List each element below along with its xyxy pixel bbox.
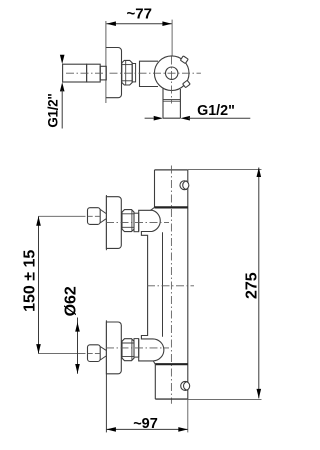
dimension Ø62 bottom arrow	[75, 364, 80, 374]
G1/2 outlet dimension left tail	[145, 117, 154, 119]
svg-text:150 ± 15: 150 ± 15	[22, 250, 39, 312]
dimension Ø62 line	[77, 318, 79, 374]
lower flange (rosette front)	[106, 322, 121, 374]
upper nut hex lines	[122, 214, 134, 228]
G1/2 pipe diameter up arrow	[60, 82, 65, 91]
stop notch (bottom right)	[183, 80, 191, 87]
wall flange (rosette, side view)	[106, 48, 122, 98]
upper nut	[122, 210, 134, 232]
upper washer	[134, 213, 139, 232]
pipe thread section	[87, 64, 101, 82]
washer (side view)	[132, 64, 135, 82]
body upper left edge	[154, 170, 156, 208]
outlet pipe below head	[163, 88, 180, 118]
lower nut hex lines	[122, 343, 134, 356]
dimension ~97 left arrow	[106, 427, 116, 432]
upper axis dash-dot	[106, 221, 169, 223]
nut hex line top	[122, 64, 132, 66]
lower nut boundary	[131, 339, 133, 361]
extension line left of ~77 / flange face line	[105, 21, 107, 103]
dimension ~97 line	[106, 428, 187, 430]
nut piece boundary	[125, 60, 127, 85]
G1/2 arrow leader line	[61, 90, 63, 129]
dimension ~97 right arrow	[178, 427, 188, 432]
upper flange face line	[105, 195, 107, 250]
dimension ~77 left arrow	[106, 21, 116, 26]
dimension 275 top arrow	[257, 168, 262, 178]
lower connection: wall stub	[88, 345, 101, 362]
lower flange face line (doubles as ~97 extension)	[105, 320, 107, 432]
vertical centerline of body	[170, 166, 172, 404]
lower hole crescent arc	[184, 382, 188, 391]
svg-text:Ø62: Ø62	[63, 286, 80, 316]
body top edge	[155, 169, 188, 171]
lower washer	[134, 339, 139, 358]
upper nut boundary	[131, 210, 133, 232]
wall pipe (side view)	[63, 64, 87, 82]
dimension 275 bottom arrow	[257, 389, 262, 399]
lower thick division line	[155, 363, 188, 365]
extension line ~97 right	[187, 399, 189, 432]
extension line top right (275)	[188, 169, 262, 171]
body right edge	[187, 170, 189, 399]
vertical centerline through head	[171, 57, 173, 104]
G1/2 pipe diameter down arrow	[60, 55, 65, 64]
dimension 150±15 bottom arrow	[36, 344, 41, 354]
svg-text:~77: ~77	[126, 6, 151, 23]
upper solid centerline (150 extension)	[39, 215, 101, 217]
dimension ~77 line	[106, 23, 171, 25]
upper mounting hole	[180, 181, 189, 190]
outlet pipe joint line 1	[163, 99, 180, 101]
body lower left edge	[154, 364, 156, 399]
inner body line	[162, 232, 164, 336]
valve body block (side view)	[140, 61, 159, 86]
svg-text:~97: ~97	[133, 416, 158, 432]
G1/2 outlet dimension right tail	[188, 117, 250, 119]
upper bell and body left step	[139, 210, 164, 361]
upper connection: wall stub	[88, 208, 101, 225]
temperature tab (top right)	[180, 56, 188, 64]
svg-text:275: 275	[244, 272, 261, 299]
thermostat head circle	[154, 56, 189, 91]
inner knob circle	[166, 67, 178, 79]
upper thick division line	[155, 206, 188, 208]
lower solid centerline (150 extension)	[39, 353, 101, 355]
nut hex line bottom	[122, 80, 132, 82]
upper bell chamfer to body	[151, 207, 155, 210]
lower nut	[122, 339, 134, 361]
dimension 275 line	[258, 168, 260, 399]
body bottom edge	[155, 398, 188, 400]
upper flange (rosette front)	[106, 197, 121, 249]
outlet pipe joint line 2	[163, 100, 180, 102]
lower axis dash-dot	[106, 347, 169, 349]
dimension 150±15 line	[38, 216, 40, 353]
dimension Ø62 top arrow	[75, 322, 80, 332]
svg-text:G1/2": G1/2"	[46, 94, 61, 128]
middle horizontal dash-dot	[147, 285, 194, 287]
lower taper to flange	[100, 347, 106, 361]
pipe collar	[100, 66, 106, 80]
lower mounting hole	[181, 381, 190, 390]
lower bell chamfer to body	[153, 361, 155, 364]
dimension 150±15 top arrow	[36, 216, 41, 226]
coupling nut (side view)	[122, 60, 132, 85]
extension line right of ~77	[171, 20, 173, 57]
extension line bottom right (275)	[188, 398, 262, 400]
horizontal centerline of top view	[66, 72, 201, 74]
G1/2 outlet left arrow	[154, 116, 163, 121]
svg-text:G1/2": G1/2"	[197, 103, 235, 119]
dimension ~77 right arrow	[162, 21, 172, 26]
upper hole crescent arc	[183, 181, 187, 190]
G1/2 outlet right arrow	[180, 116, 190, 121]
upper taper to flange	[100, 209, 106, 223]
